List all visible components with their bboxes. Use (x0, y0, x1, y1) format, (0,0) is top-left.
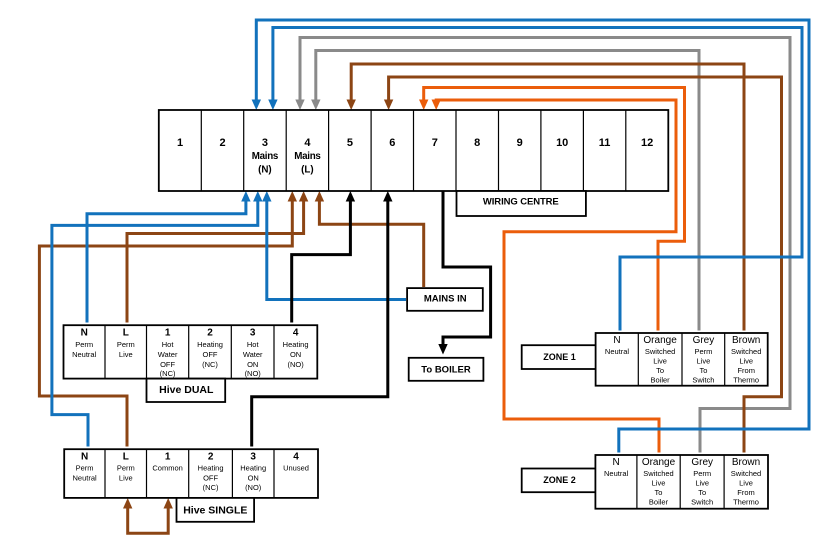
svg-text:Switched: Switched (643, 469, 673, 478)
svg-text:1: 1 (177, 137, 183, 149)
svg-text:Hive DUAL: Hive DUAL (159, 384, 214, 396)
svg-text:WIRING CENTRE: WIRING CENTRE (483, 196, 559, 207)
svg-text:3: 3 (262, 137, 268, 149)
svg-text:To: To (655, 488, 663, 497)
svg-text:11: 11 (599, 137, 611, 149)
svg-text:Water: Water (158, 350, 178, 359)
svg-text:ZONE 2: ZONE 2 (543, 475, 576, 485)
svg-text:L: L (123, 451, 129, 462)
svg-text:Perm: Perm (693, 469, 711, 478)
svg-text:Perm: Perm (75, 340, 93, 349)
svg-text:Switch: Switch (692, 376, 714, 385)
svg-text:Hot: Hot (162, 340, 175, 349)
svg-text:Perm: Perm (117, 463, 135, 472)
svg-text:12: 12 (641, 137, 653, 149)
svg-text:10: 10 (556, 137, 568, 149)
svg-text:7: 7 (432, 137, 438, 149)
svg-text:From: From (737, 366, 755, 375)
svg-text:Live: Live (652, 478, 666, 487)
svg-text:4: 4 (293, 451, 299, 462)
svg-text:Live: Live (119, 473, 133, 482)
svg-text:Live: Live (739, 356, 753, 365)
svg-text:From: From (737, 488, 755, 497)
svg-text:Heating: Heating (240, 463, 266, 472)
svg-text:Thermo: Thermo (733, 498, 759, 507)
svg-text:Perm: Perm (76, 463, 94, 472)
svg-text:Switched: Switched (645, 347, 675, 356)
svg-text:ON: ON (248, 473, 259, 482)
svg-text:2: 2 (207, 327, 213, 338)
svg-text:(NC): (NC) (202, 360, 218, 369)
svg-text:Boiler: Boiler (651, 376, 671, 385)
svg-text:(N): (N) (258, 165, 272, 176)
svg-text:Switched: Switched (731, 347, 761, 356)
svg-text:Brown: Brown (732, 457, 760, 468)
svg-text:Water: Water (243, 350, 263, 359)
svg-text:Mains: Mains (294, 151, 321, 162)
svg-text:Orange: Orange (642, 457, 676, 468)
svg-text:4: 4 (293, 327, 299, 338)
svg-text:(NO): (NO) (245, 369, 262, 378)
svg-text:3: 3 (250, 327, 256, 338)
svg-text:Switched: Switched (731, 469, 761, 478)
svg-text:Live: Live (653, 356, 667, 365)
svg-text:OFF: OFF (203, 350, 218, 359)
svg-text:OFF: OFF (160, 360, 175, 369)
svg-text:Perm: Perm (117, 340, 135, 349)
svg-text:Neutral: Neutral (73, 473, 98, 482)
svg-text:2: 2 (208, 451, 214, 462)
svg-text:N: N (612, 457, 619, 468)
svg-text:(NO): (NO) (287, 360, 304, 369)
svg-text:4: 4 (304, 137, 311, 149)
svg-text:6: 6 (389, 137, 395, 149)
svg-text:8: 8 (474, 137, 480, 149)
svg-text:ZONE 1: ZONE 1 (543, 352, 576, 362)
svg-text:Unused: Unused (283, 463, 309, 472)
svg-text:L: L (123, 327, 129, 338)
svg-text:Hot: Hot (247, 340, 260, 349)
svg-text:Grey: Grey (691, 457, 713, 468)
svg-text:(NC): (NC) (160, 369, 176, 378)
svg-text:(L): (L) (301, 165, 314, 176)
svg-text:To: To (656, 366, 664, 375)
svg-text:Live: Live (739, 478, 753, 487)
svg-text:Heating: Heating (197, 340, 223, 349)
svg-text:To BOILER: To BOILER (421, 364, 471, 375)
svg-text:N: N (81, 327, 88, 338)
svg-text:3: 3 (250, 451, 256, 462)
svg-text:To: To (698, 488, 706, 497)
svg-text:5: 5 (347, 137, 353, 149)
svg-text:ON: ON (290, 350, 301, 359)
svg-text:Thermo: Thermo (733, 376, 759, 385)
svg-text:Live: Live (119, 350, 133, 359)
svg-text:Heating: Heating (283, 340, 309, 349)
svg-text:Mains: Mains (252, 151, 279, 162)
svg-text:Neutral: Neutral (605, 347, 630, 356)
svg-text:MAINS IN: MAINS IN (424, 293, 467, 304)
svg-text:1: 1 (165, 451, 171, 462)
svg-text:2: 2 (219, 137, 225, 149)
svg-text:Brown: Brown (732, 335, 760, 346)
svg-text:Neutral: Neutral (72, 350, 97, 359)
svg-text:N: N (81, 451, 88, 462)
svg-text:Neutral: Neutral (604, 469, 629, 478)
svg-text:Perm: Perm (694, 347, 712, 356)
svg-text:ON: ON (247, 360, 258, 369)
svg-text:Orange: Orange (643, 335, 677, 346)
svg-text:9: 9 (517, 137, 523, 149)
svg-text:Common: Common (152, 463, 182, 472)
svg-text:Hive SINGLE: Hive SINGLE (183, 504, 247, 516)
svg-text:Live: Live (695, 478, 709, 487)
svg-text:Boiler: Boiler (649, 498, 669, 507)
svg-text:N: N (613, 335, 620, 346)
svg-text:(NO): (NO) (245, 483, 262, 492)
svg-text:To: To (699, 366, 707, 375)
svg-text:Grey: Grey (693, 335, 715, 346)
svg-text:Heating: Heating (198, 463, 224, 472)
svg-text:OFF: OFF (203, 473, 218, 482)
svg-text:Switch: Switch (691, 498, 713, 507)
svg-text:1: 1 (165, 327, 171, 338)
svg-text:Live: Live (697, 356, 711, 365)
svg-text:(NC): (NC) (203, 483, 219, 492)
